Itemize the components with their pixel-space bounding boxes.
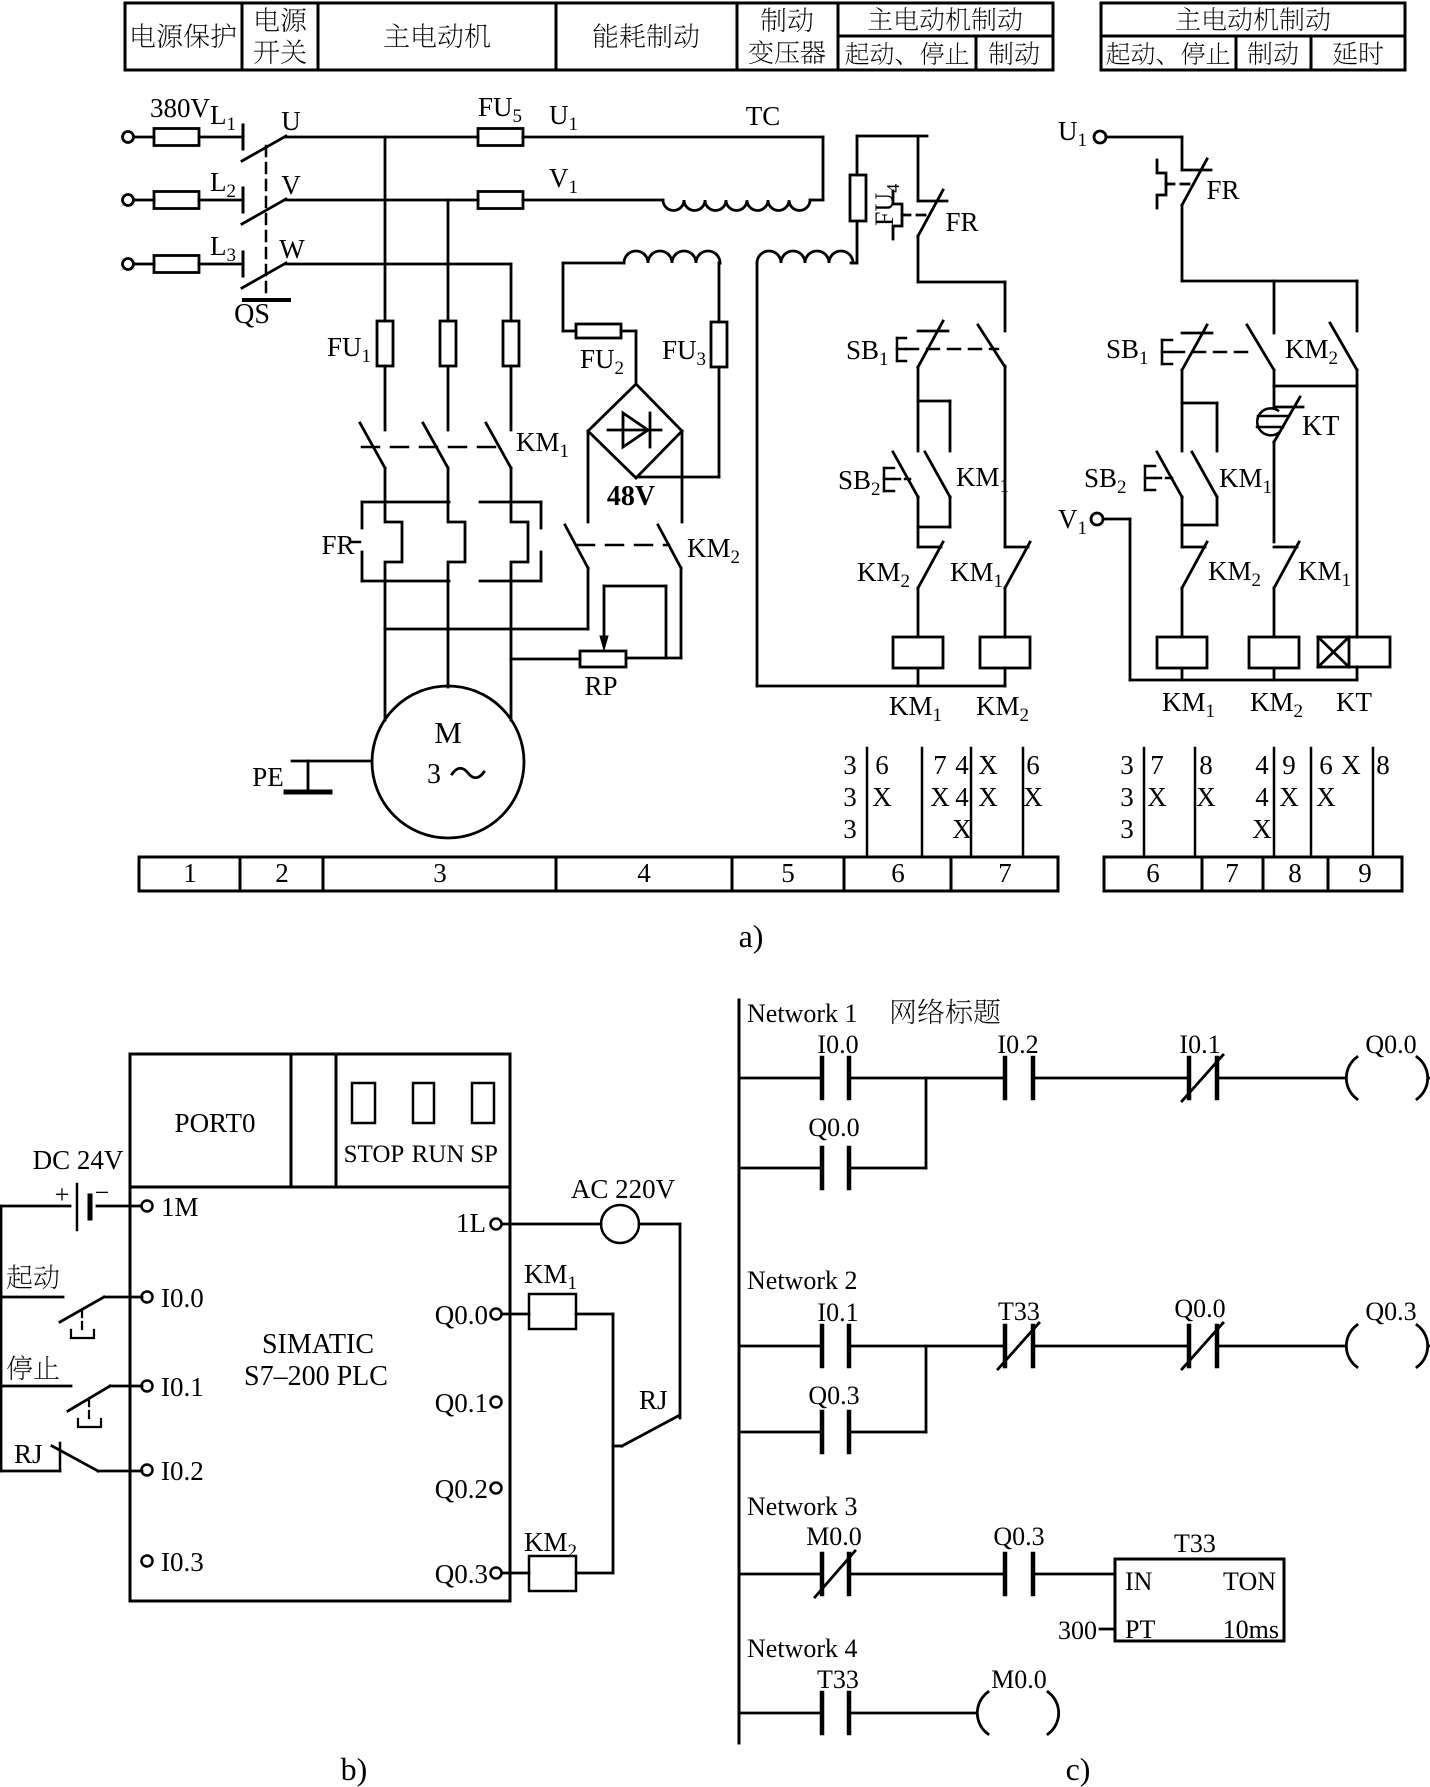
svg-text:S7–200 PLC: S7–200 PLC xyxy=(244,1361,388,1392)
svg-text:4: 4 xyxy=(1255,782,1269,812)
svg-text:RJ: RJ xyxy=(14,1439,43,1469)
svg-text:3: 3 xyxy=(843,750,857,780)
svg-text:Q0.3: Q0.3 xyxy=(435,1559,488,1589)
svg-text:3: 3 xyxy=(427,759,441,790)
svg-text:IN: IN xyxy=(1125,1567,1153,1596)
svg-text:+: + xyxy=(55,1180,70,1209)
svg-text:X: X xyxy=(978,750,998,780)
svg-text:1M: 1M xyxy=(161,1192,199,1222)
svg-text:V: V xyxy=(281,170,301,200)
svg-text:I0.0: I0.0 xyxy=(817,1030,858,1059)
svg-text:Q0.3: Q0.3 xyxy=(1365,1297,1416,1326)
svg-text:X: X xyxy=(952,814,972,844)
svg-text:6: 6 xyxy=(1026,750,1040,780)
svg-text:T33: T33 xyxy=(998,1297,1040,1326)
svg-text:4: 4 xyxy=(637,858,651,888)
svg-text:RP: RP xyxy=(584,671,617,701)
svg-text:9: 9 xyxy=(1358,858,1372,888)
svg-text:KT: KT xyxy=(1336,687,1372,717)
svg-text:3: 3 xyxy=(843,814,857,844)
svg-text:M0.0: M0.0 xyxy=(806,1522,862,1551)
svg-text:c): c) xyxy=(1066,1751,1091,1787)
svg-text:48V: 48V xyxy=(607,481,655,512)
svg-text:I0.2: I0.2 xyxy=(997,1030,1038,1059)
svg-text:300: 300 xyxy=(1058,1616,1097,1645)
svg-text:X: X xyxy=(1252,814,1272,844)
svg-text:Network 3: Network 3 xyxy=(747,1492,857,1521)
svg-text:AC 220V: AC 220V xyxy=(571,1174,676,1204)
svg-text:380V: 380V xyxy=(150,93,211,123)
svg-text:QS: QS xyxy=(234,299,270,330)
svg-text:1L: 1L xyxy=(456,1208,486,1238)
svg-text:Q0.0: Q0.0 xyxy=(808,1113,859,1142)
svg-text:X: X xyxy=(1279,782,1299,812)
svg-text:FR: FR xyxy=(1206,175,1239,205)
svg-text:5: 5 xyxy=(781,858,795,888)
svg-text:X: X xyxy=(1023,782,1043,812)
svg-text:4: 4 xyxy=(1255,750,1269,780)
svg-text:a): a) xyxy=(739,918,764,954)
svg-text:10ms: 10ms xyxy=(1223,1615,1279,1644)
svg-text:Network 1: Network 1 xyxy=(747,999,857,1028)
svg-text:I0.3: I0.3 xyxy=(161,1547,204,1577)
svg-text:DC 24V: DC 24V xyxy=(33,1145,124,1175)
svg-text:PORT0: PORT0 xyxy=(175,1108,256,1138)
svg-text:PT: PT xyxy=(1125,1615,1155,1644)
svg-text:3: 3 xyxy=(1120,814,1134,844)
svg-text:STOP: STOP xyxy=(344,1141,405,1168)
svg-text:X: X xyxy=(1341,750,1361,780)
svg-text:7: 7 xyxy=(1150,750,1164,780)
svg-text:8: 8 xyxy=(1376,750,1390,780)
svg-text:FR: FR xyxy=(321,530,354,560)
svg-text:RJ: RJ xyxy=(639,1385,668,1415)
svg-text:2: 2 xyxy=(275,858,289,888)
svg-text:SIMATIC: SIMATIC xyxy=(262,1329,374,1360)
svg-text:6: 6 xyxy=(875,750,889,780)
svg-text:X: X xyxy=(930,782,950,812)
svg-text:8: 8 xyxy=(1199,750,1213,780)
svg-text:9: 9 xyxy=(1282,750,1296,780)
svg-text:Q0.2: Q0.2 xyxy=(435,1474,488,1504)
svg-text:Q0.0: Q0.0 xyxy=(1174,1294,1225,1323)
svg-text:I0.0: I0.0 xyxy=(161,1283,204,1313)
svg-text:4: 4 xyxy=(955,750,969,780)
svg-text:1: 1 xyxy=(183,858,197,888)
svg-text:FR: FR xyxy=(945,207,978,237)
svg-text:6: 6 xyxy=(1319,750,1333,780)
svg-text:3: 3 xyxy=(843,782,857,812)
svg-text:W: W xyxy=(279,234,305,264)
svg-text:I0.2: I0.2 xyxy=(161,1456,204,1486)
svg-text:SP: SP xyxy=(470,1141,498,1168)
svg-text:3: 3 xyxy=(433,858,447,888)
svg-text:Q0.0: Q0.0 xyxy=(1365,1030,1416,1059)
svg-text:U: U xyxy=(281,106,301,136)
svg-text:Network 4: Network 4 xyxy=(747,1634,857,1663)
svg-text:3: 3 xyxy=(1120,750,1134,780)
svg-text:M: M xyxy=(434,715,462,750)
svg-text:8: 8 xyxy=(1288,858,1302,888)
svg-text:X: X xyxy=(1316,782,1336,812)
svg-text:I0.1: I0.1 xyxy=(161,1372,204,1402)
svg-text:7: 7 xyxy=(1225,858,1239,888)
svg-text:Q0.3: Q0.3 xyxy=(808,1381,859,1410)
svg-text:T33: T33 xyxy=(817,1665,859,1694)
svg-text:3: 3 xyxy=(1120,782,1134,812)
svg-text:PE: PE xyxy=(252,762,284,792)
svg-text:X: X xyxy=(978,782,998,812)
svg-text:4: 4 xyxy=(955,782,969,812)
svg-text:TON: TON xyxy=(1223,1567,1276,1596)
svg-text:KT: KT xyxy=(1302,411,1339,442)
svg-text:6: 6 xyxy=(1146,858,1160,888)
svg-text:I0.1: I0.1 xyxy=(817,1298,858,1327)
svg-text:Network 2: Network 2 xyxy=(747,1266,857,1295)
svg-text:b): b) xyxy=(341,1751,368,1787)
svg-text:7: 7 xyxy=(998,858,1012,888)
svg-text:Q0.0: Q0.0 xyxy=(435,1300,488,1330)
svg-text:Q0.3: Q0.3 xyxy=(993,1522,1044,1551)
svg-text:−: − xyxy=(95,1178,110,1207)
svg-text:T33: T33 xyxy=(1174,1529,1216,1558)
svg-text:RUN: RUN xyxy=(412,1141,465,1168)
svg-text:TC: TC xyxy=(746,101,781,131)
svg-text:M0.0: M0.0 xyxy=(991,1665,1047,1694)
svg-text:X: X xyxy=(1147,782,1167,812)
svg-text:I0.1: I0.1 xyxy=(1179,1030,1220,1059)
svg-text:6: 6 xyxy=(891,858,905,888)
svg-text:X: X xyxy=(872,782,892,812)
svg-text:X: X xyxy=(1196,782,1216,812)
svg-text:Q0.1: Q0.1 xyxy=(435,1388,488,1418)
svg-text:7: 7 xyxy=(933,750,947,780)
